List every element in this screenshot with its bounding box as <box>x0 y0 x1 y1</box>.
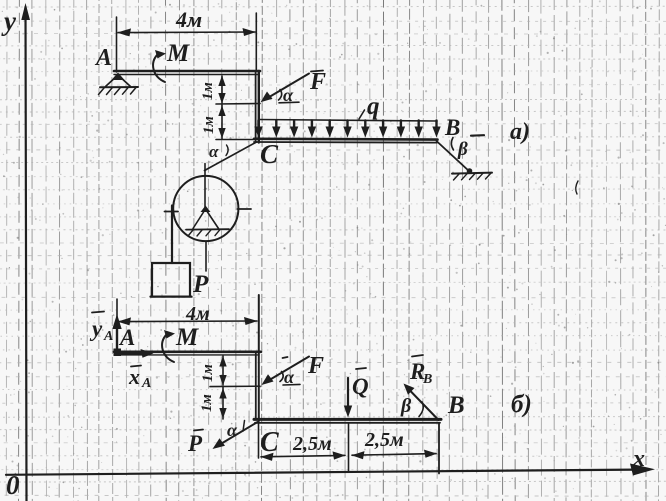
angle beta at B (fig a) <box>451 138 468 161</box>
dimension line 2.5m right (fig b) <box>352 450 438 460</box>
svg-text:x: x <box>128 364 140 389</box>
support link at B (fig a) <box>437 141 473 174</box>
extension below B (fig b) <box>438 423 440 474</box>
pulley pinned support <box>186 206 229 237</box>
svg-text:β: β <box>400 395 412 417</box>
force F vector (fig b) <box>262 357 310 386</box>
svg-text:A: A <box>141 376 151 391</box>
svg-text:2,5м: 2,5м <box>364 429 404 451</box>
distributed load q arrows (fig a) <box>254 121 440 138</box>
dimension label 1m upper (fig a) <box>200 82 216 100</box>
angle beta at B (fig b) <box>400 395 423 417</box>
svg-text:y: y <box>89 316 103 341</box>
figure label a) <box>510 119 530 145</box>
svg-text:0: 0 <box>6 470 20 500</box>
svg-text:1м: 1м <box>199 394 215 412</box>
dimension 1m upper (fig a) <box>218 76 225 104</box>
svg-text:б): б) <box>511 391 532 418</box>
beam CB (fig b) <box>254 419 441 422</box>
moment M label (fig b) <box>175 324 199 351</box>
distributed load q top line (fig a) <box>259 120 438 122</box>
force Q arrow (fig b) <box>344 378 352 418</box>
dimension label 4m (fig a) <box>175 7 202 32</box>
svg-text:M: M <box>175 324 199 351</box>
angle alpha at F (fig b) <box>280 367 300 387</box>
svg-text:4м: 4м <box>175 7 202 32</box>
dimension extension line left (fig b) <box>116 299 118 350</box>
stray pen mark <box>576 181 578 194</box>
reaction RB arrow (fig b) <box>404 384 439 421</box>
svg-text:q: q <box>367 93 380 120</box>
reaction YA label (fig b) <box>89 312 113 345</box>
svg-text:α: α <box>209 142 219 161</box>
svg-text:A: A <box>103 329 113 344</box>
y-axis <box>21 3 30 501</box>
vertical beam segment (fig b) <box>256 295 259 421</box>
svg-text:Q: Q <box>352 374 369 399</box>
origin label 0 <box>6 470 20 500</box>
angle alpha at F (fig a) <box>279 85 300 105</box>
beam A horizontal (fig b) <box>114 349 262 357</box>
node label A (fig b) <box>118 325 135 350</box>
reaction XA label (fig b) <box>128 364 151 391</box>
ground at B support (fig a) <box>452 173 492 180</box>
svg-text:1м: 1м <box>200 82 216 100</box>
angle alpha at P (fig b) <box>227 420 245 440</box>
pulley left tangent tick <box>165 211 179 213</box>
reaction RB label with bar (fig b) <box>409 355 432 387</box>
x-axis <box>6 464 655 476</box>
svg-text:P: P <box>187 431 203 456</box>
moment M arc arrow (fig b) <box>162 330 175 362</box>
rope from pulley to weight <box>171 206 173 264</box>
node label B (fig a) <box>444 115 460 140</box>
force F vector (fig a) <box>261 74 310 103</box>
svg-text:C: C <box>260 427 279 458</box>
dimension extension line right (fig a) <box>255 13 257 70</box>
angle alpha at rope (fig a) <box>209 142 228 161</box>
extension mid between C and B (fig b) <box>348 423 350 471</box>
svg-text:F: F <box>309 69 326 95</box>
dimension 1m lower (fig b) <box>219 387 226 419</box>
svg-text:x: x <box>632 446 645 472</box>
weight box P <box>151 263 192 297</box>
dimension label 4m (fig b) <box>185 303 210 325</box>
force F label with bar (fig a) <box>309 69 326 95</box>
svg-text:1м: 1м <box>201 116 217 134</box>
dash right of B (fig a) <box>471 134 484 137</box>
moment M label (fig a) <box>166 40 190 67</box>
dimension label 2.5m left (fig b) <box>292 433 332 455</box>
dimension label 2.5m right (fig b) <box>364 429 404 451</box>
lower tick to C (fig a) <box>216 139 254 141</box>
node label C (fig b) <box>260 427 279 458</box>
rope from C to pulley <box>205 142 257 171</box>
svg-text:P: P <box>192 271 209 298</box>
force P vector (fig b) <box>213 422 258 449</box>
load label q (fig a) <box>359 93 380 120</box>
svg-text:A: A <box>94 45 112 71</box>
svg-text:1м: 1м <box>200 364 216 382</box>
dimension line 4m (fig a) <box>117 28 256 36</box>
y-axis label <box>1 6 17 36</box>
svg-text:B: B <box>447 392 465 419</box>
vertical beam segment (fig a) <box>256 71 259 143</box>
dimension label 1m lower (fig b) <box>199 394 215 412</box>
dimension tick at F level (fig a) <box>216 103 260 106</box>
dimension tick (fig b) <box>210 385 260 387</box>
force F label with bar (fig b) <box>283 353 325 379</box>
svg-text:2,5м: 2,5м <box>292 433 332 455</box>
dimension label 1m upper (fig b) <box>200 364 216 382</box>
svg-text:A: A <box>118 325 135 350</box>
x-axis label <box>632 446 645 472</box>
force P label with bar (fig b) <box>187 430 203 457</box>
figure label b) <box>511 391 532 418</box>
svg-text:α: α <box>227 420 238 440</box>
force Q label with bar (fig b) <box>352 368 369 399</box>
dimension 1m upper (fig b) <box>219 356 226 386</box>
node label A (fig a) <box>94 45 112 71</box>
dimension line 2.5m left (fig b) <box>261 451 346 461</box>
svg-text:а): а) <box>510 119 530 145</box>
weight label P <box>192 271 209 298</box>
dimension line 4m (fig b) <box>118 317 258 325</box>
reaction YA arrow (fig b) <box>112 314 121 351</box>
svg-text:B: B <box>444 115 460 140</box>
beam AB horizontal (fig a) <box>114 71 260 75</box>
loaded beam CB (fig a) <box>254 139 438 143</box>
svg-text:F: F <box>307 353 324 379</box>
pulley axis upper line <box>204 164 206 208</box>
dimension label 1m lower (fig a) <box>201 116 217 134</box>
dimension 1m lower (fig a) <box>218 105 225 139</box>
svg-text:y: y <box>1 6 17 36</box>
svg-text:C: C <box>260 139 279 169</box>
pulley right tangent tick <box>238 208 252 210</box>
reaction XA arrow (fig b) <box>119 349 154 358</box>
node label C (fig a) <box>260 139 279 169</box>
svg-text:4м: 4м <box>185 303 210 325</box>
pulley axis lower line <box>205 241 207 271</box>
dimension extension line left (fig a) <box>116 17 118 72</box>
svg-text:β: β <box>457 139 468 160</box>
node label B (fig b) <box>447 392 465 419</box>
svg-text:B: B <box>422 372 432 387</box>
pinned support A (fig a) <box>99 73 139 95</box>
moment M arc arrow (fig a) <box>153 50 166 82</box>
pulley circle <box>173 176 238 241</box>
extension below C (fig b) <box>258 423 260 458</box>
svg-text:M: M <box>166 40 190 67</box>
